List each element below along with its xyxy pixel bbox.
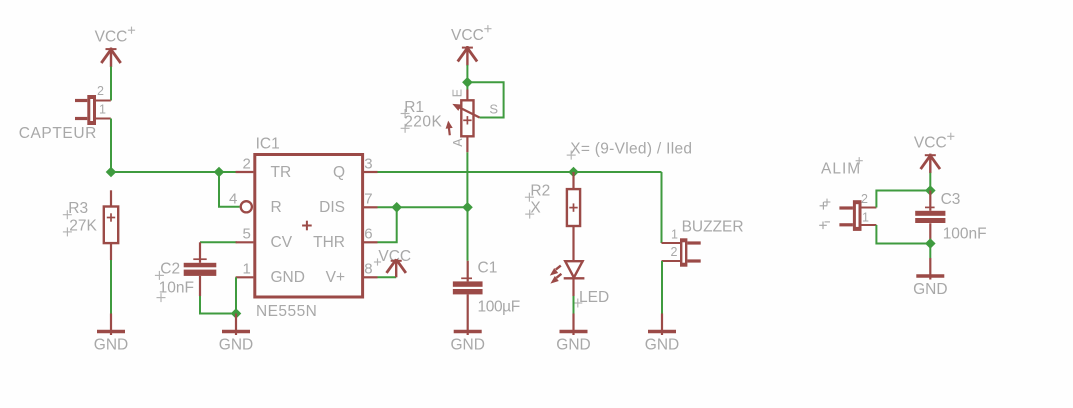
svg-text:X: X (530, 200, 541, 217)
wire buzzer pin 2 to ground (661, 261, 663, 314)
svg-text:1: 1 (242, 260, 250, 277)
wire VCC to C3 top (929, 173, 931, 191)
svg-text:GND: GND (94, 337, 128, 354)
wire R1 bottom to timing node (466, 152, 468, 207)
pin number 8 (364, 260, 372, 277)
value 27K (63, 217, 98, 236)
LED cathode pin (572, 278, 574, 296)
svg-text:8: 8 (364, 260, 372, 277)
svg-text:BUZZER: BUZZER (682, 219, 744, 236)
ground symbol (R3) (94, 314, 128, 354)
svg-text:2: 2 (242, 155, 250, 172)
pin number 2 (BUZZER) (671, 245, 678, 259)
svg-text:ALIM: ALIM (821, 160, 861, 177)
ground symbol (C3) (913, 244, 947, 299)
capacitor C2 top pin (193, 242, 206, 262)
resistor R2 body (567, 189, 580, 226)
capacitor C1 top pin (461, 261, 472, 282)
pin number 2 (242, 155, 250, 172)
connector CAPTEUR pin 1 lead (96, 118, 111, 120)
ground symbol (BUZZER) (645, 314, 679, 354)
svg-text:C1: C1 (478, 259, 498, 276)
svg-text:6: 6 (364, 225, 372, 242)
pin name GND (271, 269, 305, 286)
pin name THR (313, 234, 345, 251)
IC1 pin 3 Q stub (364, 171, 378, 173)
junction DIS branch (391, 202, 402, 213)
wire timing node to C1 (467, 207, 469, 260)
connector BUZZER pin 2 lead (662, 260, 681, 262)
power VCC symbol (V+ pin) (374, 248, 411, 277)
trimmer R1 body (461, 100, 473, 136)
wire C2 top to IC pin 5 CV (200, 241, 237, 243)
svg-text:DIS: DIS (319, 199, 345, 216)
junction timing node (462, 202, 473, 213)
resistor R3 pins (110, 190, 112, 260)
svg-text:GND: GND (271, 269, 305, 286)
label C2 (155, 261, 180, 280)
IC1 pin 2 TR stub (236, 171, 254, 173)
svg-text:R3: R3 (68, 200, 88, 217)
wire VCC to CAPTEUR pin 2 (110, 67, 112, 101)
ground symbol (LED) (556, 296, 590, 354)
svg-text:220K: 220K (404, 114, 442, 131)
connector ALIM pin 1 lead (862, 224, 877, 226)
junction at reset branch (214, 167, 225, 178)
svg-text:GND: GND (219, 337, 253, 354)
IC1 pin 6 THR stub (364, 241, 378, 243)
svg-text:2: 2 (861, 192, 868, 206)
wire ALIM pin 2 to VCC node (876, 191, 930, 208)
pin label E (450, 89, 464, 97)
label R1 (401, 99, 424, 118)
power VCC symbol (ALIM) (914, 133, 954, 173)
resistor R3 body (104, 207, 118, 244)
junction C3 top (925, 185, 936, 196)
wire to reset bubble (219, 172, 240, 207)
junction LED branch (568, 167, 579, 178)
svg-text:S: S (489, 102, 498, 117)
diode LED symbol (564, 261, 585, 278)
wire Q output bus (378, 171, 662, 173)
svg-text:LED: LED (579, 289, 609, 306)
svg-text:E: E (450, 89, 464, 97)
wire ALIM pin 1 to GND node (876, 225, 930, 244)
IC1 pin 5 CV stub (236, 241, 254, 243)
svg-text:GND: GND (556, 337, 590, 354)
trimmer R1 adjust arrow (446, 121, 453, 136)
connector CAPTEUR pin 2 lead (96, 100, 111, 102)
capacitor C3 plates (915, 211, 945, 223)
value 100uF (478, 299, 520, 316)
svg-text:2: 2 (671, 245, 678, 259)
svg-text:10nF: 10nF (159, 280, 194, 297)
IC1 pin 8 V+ stub (364, 276, 378, 278)
trimmer R1 bottom pin (466, 136, 468, 152)
capacitor C2 bottom pin (199, 276, 201, 296)
svg-text:IC1: IC1 (256, 136, 280, 153)
capacitor C1 bottom pin (467, 294, 469, 313)
svg-text:GND: GND (913, 281, 947, 298)
svg-text:THR: THR (313, 234, 345, 251)
pin number 2 (CAPTEUR) (97, 84, 104, 98)
pin label A (451, 138, 465, 147)
pin label S (489, 102, 498, 117)
LED light arrows (550, 266, 562, 284)
resistor R2 bottom pin (572, 226, 574, 261)
IC1 pin 7 DIS stub (364, 206, 378, 208)
svg-text:VCC: VCC (95, 29, 128, 46)
svg-text:7: 7 (364, 190, 372, 207)
svg-text:GND: GND (645, 337, 679, 354)
IC1 pin 1 GND stub (236, 276, 254, 278)
power VCC symbol (CAPTEUR branch) (95, 27, 135, 67)
wire THR loop (378, 207, 397, 242)
pin number 7 (364, 190, 372, 207)
IC1 center plus mark (302, 221, 312, 231)
pin number 4 (229, 190, 237, 207)
pin number 1 (CAPTEUR) (99, 103, 106, 117)
label CAPTEUR (19, 125, 97, 142)
svg-text:1: 1 (99, 103, 106, 117)
wire CAPTEUR pin 1 to node A (110, 119, 112, 173)
wire C2 to ground node (200, 296, 236, 314)
svg-text:4: 4 (229, 190, 237, 207)
wire VCC to R1 node (466, 65, 468, 82)
svg-text:R: R (271, 199, 282, 216)
node R1 top junction (462, 77, 473, 88)
svg-text:A: A (451, 138, 465, 147)
pin name DIS (319, 199, 345, 216)
pin number 6 (364, 225, 372, 242)
label BUZZER (682, 219, 744, 236)
resistor R2 top pin (572, 172, 574, 189)
ground symbol (C1) (450, 314, 484, 354)
label C1 (478, 259, 498, 276)
label IC1 (256, 136, 280, 153)
svg-text:2: 2 (97, 84, 104, 98)
ground symbol (IC1/C2) (219, 314, 253, 354)
label ALIM (821, 157, 863, 177)
trimmer R1 wiper arrow (452, 104, 479, 118)
svg-text:V+: V+ (326, 269, 345, 286)
op-amp-IC IC1 box (255, 155, 363, 298)
pin number 1 (242, 260, 250, 277)
pin number 1 (ALIM) (862, 211, 869, 225)
pin name R (271, 199, 282, 216)
pin name V+ (326, 269, 345, 286)
pin number 1 (BUZZER) (671, 228, 678, 242)
wire R3 to ground (110, 260, 112, 314)
label R2 (525, 183, 550, 202)
pin number 2 (ALIM) (861, 192, 868, 206)
IC1 pin 4 R bubble (241, 201, 252, 212)
pin number 3 (364, 155, 372, 172)
capacitor C2 plates (184, 263, 217, 276)
label C3 (941, 191, 961, 208)
label LED (573, 289, 609, 308)
trimmer R1 top pin (466, 82, 468, 100)
value 100nF (943, 226, 987, 243)
svg-text:VCC: VCC (914, 135, 947, 152)
formula text (567, 141, 693, 160)
pin number 5 (242, 225, 250, 242)
wire R1 wiper loop (467, 82, 503, 117)
svg-text:NE555N: NE555N (256, 303, 317, 320)
value X (525, 200, 541, 219)
connector ALIM plus marks pin 1 (819, 222, 830, 230)
svg-text:100nF: 100nF (943, 226, 987, 243)
svg-text:3: 3 (364, 155, 372, 172)
svg-text:27K: 27K (69, 217, 97, 234)
capacitor C3 bottom pin (929, 223, 931, 243)
label NE555N (256, 303, 317, 320)
junction C3 bottom (925, 238, 936, 249)
capacitor C3 top pin (925, 191, 935, 211)
connector ALIM body (839, 200, 861, 231)
ground node junction (231, 308, 242, 319)
capacitor C1 plates (453, 281, 483, 294)
svg-text:CAPTEUR: CAPTEUR (19, 125, 97, 142)
power VCC symbol (R1 branch) (451, 25, 491, 65)
svg-text:100µF: 100µF (478, 299, 520, 316)
svg-text:C3: C3 (941, 191, 961, 208)
wire V+ to VCC (378, 276, 397, 278)
wire Q bus to buzzer pin 1 (661, 172, 663, 243)
wire node A to IC pin 2 (111, 171, 237, 173)
value 10nF (157, 280, 194, 303)
svg-text:TR: TR (271, 164, 292, 181)
connector ALIM plus marks pin 2 (820, 199, 831, 210)
wire IC pin 1 to ground node (235, 277, 237, 313)
node A junction (106, 167, 117, 178)
label R3 (63, 200, 88, 219)
connector BUZZER pin 1 lead (662, 242, 681, 244)
svg-text:C2: C2 (160, 261, 180, 278)
svg-text:VCC: VCC (451, 27, 484, 44)
connector CAPTEUR body (75, 95, 96, 125)
pin name TR (271, 164, 292, 181)
svg-text:R2: R2 (530, 183, 550, 200)
svg-text:5: 5 (242, 225, 250, 242)
pin name Q (333, 164, 345, 181)
wire DIS to timing node (378, 206, 468, 208)
connector ALIM pin 2 lead (862, 207, 877, 209)
svg-text:1: 1 (862, 211, 869, 225)
svg-text:1: 1 (671, 228, 678, 242)
svg-text:GND: GND (450, 337, 484, 354)
value 220K (401, 114, 443, 133)
pin name CV (271, 234, 293, 251)
connector BUZZER body (680, 238, 701, 266)
svg-text:X= (9-Vled) / Iled: X= (9-Vled) / Iled (570, 141, 692, 158)
svg-text:CV: CV (271, 234, 293, 251)
svg-text:Q: Q (333, 164, 345, 181)
